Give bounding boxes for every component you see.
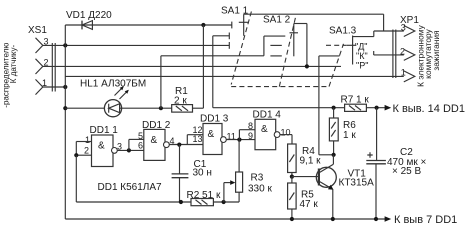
svg-text:1: 1: [401, 68, 406, 78]
wire feedback line: [76, 201, 191, 203]
svg-text:К выв 7 DD1: К выв 7 DD1: [394, 214, 457, 226]
svg-text:SA1.3: SA1.3: [329, 26, 357, 37]
svg-text:DD1 1: DD1 1: [90, 125, 119, 136]
svg-text:R2 51 к: R2 51 к: [187, 190, 221, 201]
wire top rail (diode line): [65, 24, 232, 26]
svg-text:"Д": "Д": [355, 42, 368, 52]
svg-text:6: 6: [138, 140, 143, 150]
svg-text:3: 3: [401, 22, 406, 32]
svg-text:10: 10: [281, 128, 291, 138]
node pin3 junction: [63, 43, 67, 47]
wire К contact to XP1 pin2: [373, 51, 375, 55]
resistor R1: [172, 86, 193, 112]
resistor R4: [288, 144, 322, 173]
svg-text:XS1: XS1: [28, 25, 47, 36]
svg-text:9,1 к: 9,1 к: [300, 156, 322, 167]
svg-text:R3: R3: [251, 173, 264, 184]
wire main left vertical: [64, 45, 66, 219]
svg-text:× 25 В: × 25 В: [392, 166, 422, 177]
svg-text:&: &: [261, 124, 268, 135]
wire XS1 pin1 stub: [43, 86, 66, 88]
node R1 left: [159, 106, 163, 110]
wire R7 right: [366, 107, 385, 109]
svg-text:330 к: 330 к: [248, 184, 272, 195]
wire Д contact to XP1 pin3: [353, 36, 374, 38]
node C2 top: [375, 106, 379, 110]
svg-text:DD1 3: DD1 3: [200, 114, 229, 125]
svg-text:DD1 4: DD1 4: [253, 110, 282, 121]
wire SA1.2 arm to pin2 row: [294, 23, 307, 25]
wire XS1 pin3 row: [43, 44, 230, 46]
svg-text:-распределителю: -распределителю: [1, 43, 10, 108]
svg-text:SA1 2: SA1 2: [263, 15, 291, 26]
resistor R3 (trimmer): [224, 172, 273, 202]
resistor R6: [329, 118, 356, 141]
wire DD1.1 inputs down to feedback line: [75, 155, 77, 202]
node diode rail / R1 riser: [201, 23, 205, 27]
node R6 top: [332, 106, 336, 110]
svg-text:8: 8: [248, 121, 253, 131]
svg-text:HL1 АЛ307БМ: HL1 АЛ307БМ: [80, 79, 146, 90]
wire base: [292, 176, 319, 178]
connector XP1: [393, 15, 419, 82]
svg-text:зажигания: зажигания: [431, 30, 441, 70]
svg-text:1 к: 1 к: [343, 130, 356, 141]
svg-text:9: 9: [248, 131, 253, 141]
gate DD1.1: [84, 125, 122, 167]
svg-text:SA1 1: SA1 1: [221, 6, 249, 17]
svg-text:2: 2: [84, 146, 89, 156]
svg-text:DD1 К561ЛА7: DD1 К561ЛА7: [98, 182, 163, 193]
capacitor C2: [366, 108, 426, 219]
svg-text:R7 1 к: R7 1 к: [341, 95, 370, 106]
wire SA1.2 feed from R1 node: [161, 55, 264, 57]
wire XS1 pin2 row: [43, 65, 341, 67]
resistor R7: [341, 95, 370, 112]
node collector: [332, 153, 336, 157]
node LED left: [63, 106, 67, 110]
transistor VT1: [316, 164, 374, 190]
gate DD1.4: [248, 110, 291, 150]
LED HL1: [80, 79, 146, 117]
wire DD1.2 out: [169, 144, 203, 146]
label К электронному коммутатору зажигания: [416, 24, 441, 87]
wire LED row: [65, 107, 104, 109]
gate DD1.3: [193, 114, 236, 155]
node pin1 junction: [63, 85, 67, 89]
svg-text:2: 2: [400, 46, 405, 56]
svg-text:13: 13: [193, 134, 203, 144]
svg-text:&: &: [151, 135, 158, 146]
svg-text:&: &: [208, 129, 215, 140]
svg-text:47 к: 47 к: [300, 199, 319, 210]
arrow К выв. 14 DD1: [385, 103, 465, 115]
mechanical link (dashed): [231, 12, 346, 87]
wire DD1.3 out: [226, 139, 255, 141]
wire R7 feed line: [212, 36, 214, 108]
wire long row to XP1 pin1: [65, 75, 404, 77]
wire down to R3: [238, 140, 240, 172]
wire riser to diode rail: [64, 25, 66, 45]
wire R1 right to diode rail: [193, 107, 204, 109]
diode VD1: [66, 10, 112, 29]
resistor R5: [288, 183, 319, 210]
svg-text:"Р": "Р": [356, 61, 368, 71]
wire DD1.4 out to R4: [280, 134, 292, 136]
connector XS1: [28, 25, 55, 95]
svg-text:"К": "К": [356, 51, 368, 61]
gate DD1.2: [138, 120, 175, 160]
node SA1.2/pin2: [305, 64, 309, 68]
svg-text:К выв. 14 DD1: К выв. 14 DD1: [393, 103, 465, 115]
wire bottom rail: [65, 218, 385, 220]
svg-text:30 н: 30 н: [193, 168, 212, 179]
svg-text:VD1 Д220: VD1 Д220: [66, 10, 112, 21]
svg-text:DD1 2: DD1 2: [142, 120, 171, 131]
switch SA1.1: [213, 6, 249, 49]
arrow К выв 7 DD1: [385, 214, 458, 226]
switch SA1.2: [263, 15, 298, 57]
svg-text:1: 1: [85, 135, 90, 145]
svg-text:2 к: 2 к: [174, 96, 187, 107]
switch SA1.3: [329, 26, 368, 71]
wire branch to VT1 collector: [319, 55, 340, 57]
capacitor C1: [172, 145, 212, 203]
resistor R2: [187, 190, 221, 206]
svg-text:КТ315А: КТ315А: [339, 178, 375, 189]
wire DD1.1 out: [117, 149, 144, 151]
svg-text:&: &: [98, 141, 105, 152]
wire rail2 to XP1: [244, 13, 384, 15]
wire DD1.1 inputs tied: [76, 141, 91, 143]
label К датчику-распределителю: [1, 43, 18, 108]
